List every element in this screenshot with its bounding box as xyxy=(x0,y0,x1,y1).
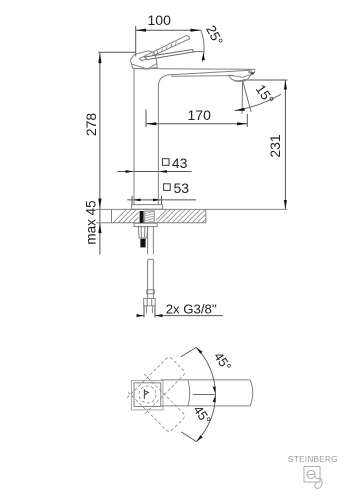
dimension 278 arrows xyxy=(98,53,101,233)
dimension 43 line xyxy=(117,171,191,173)
square symbol 53 xyxy=(164,184,171,191)
svg-text:15°: 15° xyxy=(253,82,277,107)
lever hatch ticks xyxy=(152,42,176,56)
15 degree lines xyxy=(235,80,282,114)
hose dimension extension lines xyxy=(137,306,223,318)
top view dashed swivel position lower xyxy=(127,374,186,433)
svg-text:170: 170 xyxy=(188,107,212,123)
hose dimension arrows xyxy=(137,314,163,317)
supply hose lower xyxy=(147,259,154,298)
svg-text:2x G3/8'': 2x G3/8'' xyxy=(166,301,217,316)
brand logo square xyxy=(304,467,320,483)
hose G3/8 nut xyxy=(144,298,156,305)
dimension 170 line xyxy=(146,110,247,128)
mounting washer xyxy=(134,223,157,226)
svg-text:43: 43 xyxy=(172,155,188,171)
countertop hatched section xyxy=(96,209,288,222)
top view dashed swivel position upper xyxy=(127,356,186,415)
supply hose upper xyxy=(148,227,154,255)
mounting nut xyxy=(138,227,147,238)
threaded shank black rod xyxy=(140,211,144,223)
spout end shading xyxy=(250,73,254,75)
faucet body column xyxy=(134,69,159,205)
svg-text:100: 100 xyxy=(148,12,172,28)
top view lever glyph xyxy=(144,389,148,399)
swivel arc xyxy=(181,347,216,441)
hose stub below nut xyxy=(147,306,153,313)
dimension 100 horizontal line xyxy=(136,26,201,57)
25 degree arc xyxy=(192,30,205,62)
dimension 231 vertical line xyxy=(243,80,288,210)
15 degree arrow xyxy=(235,108,245,111)
spout end block xyxy=(249,69,255,73)
top view cartridge dashed circle xyxy=(139,386,156,403)
dimension 231 arrows xyxy=(284,80,287,210)
25 degree arrow xyxy=(202,53,205,61)
top view outer square xyxy=(131,381,163,410)
svg-text:278: 278 xyxy=(83,113,99,137)
swivel arc arrows xyxy=(196,347,216,441)
svg-text:53: 53 xyxy=(174,180,190,196)
faucet base plate xyxy=(131,205,162,210)
dimension 100 arrows xyxy=(136,29,201,32)
svg-text:231: 231 xyxy=(267,134,283,158)
faucet spout xyxy=(158,69,249,86)
dimension 170 arrows xyxy=(146,122,247,125)
top view spout xyxy=(161,380,253,406)
blade tip shading xyxy=(186,50,194,54)
handle blade xyxy=(145,50,194,60)
faucet handle lever xyxy=(140,35,190,61)
threaded shank xyxy=(145,211,155,223)
svg-text:45°: 45° xyxy=(211,349,235,374)
dimension 53 line xyxy=(127,196,196,205)
brand logo swirl xyxy=(307,470,315,478)
dimension 278 vertical line xyxy=(98,52,135,254)
spout aerator xyxy=(229,74,252,81)
dimension 53 arrows xyxy=(132,199,162,202)
counter hatch lines xyxy=(113,209,206,222)
threaded stud black tip xyxy=(140,239,145,248)
svg-text:STEINBERG: STEINBERG xyxy=(288,454,338,464)
handle base cap xyxy=(130,51,157,69)
top view inner square xyxy=(134,383,161,407)
svg-text:25°: 25° xyxy=(203,23,226,48)
dimension 43 arrows xyxy=(126,170,167,173)
square symbol 43 xyxy=(162,159,169,166)
